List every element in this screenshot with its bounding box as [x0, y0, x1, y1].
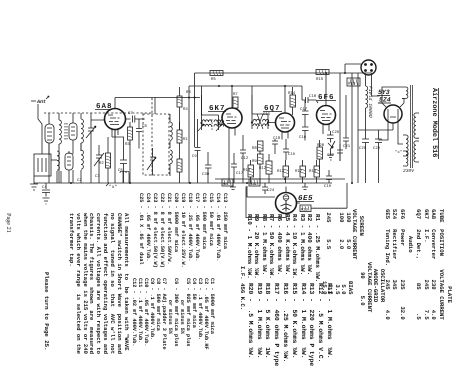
- tube voltage table plate: [383, 209, 453, 320]
- tube voltage table bias: [321, 281, 354, 294]
- trimmer capacitor C2: [77, 113, 96, 183]
- electrolytic capacitor C28: [359, 139, 369, 183]
- electrolytic capacitor C29: [373, 130, 382, 183]
- svg-text:C2: C2: [77, 178, 82, 183]
- svg-text:R8: R8: [252, 146, 257, 151]
- wire IF1 to 6K7: [202, 95, 223, 123]
- svg-text:5Y3: 5Y3: [378, 89, 390, 96]
- capacitor C24: [262, 183, 275, 194]
- svg-text:Airzone Model 516: Airzone Model 516: [430, 88, 438, 157]
- note paragraph: [67, 213, 129, 354]
- resistor R6 label top: [186, 90, 191, 95]
- svg-text:C26: C26: [332, 130, 340, 135]
- tone switch S1: [328, 141, 335, 160]
- resistor R7: [233, 92, 238, 108]
- capacitor C9: [192, 119, 201, 183]
- svg-text:R12: R12: [259, 166, 267, 171]
- oscillator coil L7: [170, 150, 172, 176]
- resistor R1: [177, 122, 188, 150]
- wire to 6E5: [247, 186, 275, 197]
- svg-text:R1: R1: [183, 137, 188, 142]
- resistor R2: [99, 137, 111, 183]
- wire 6E5 cathode: [246, 183, 347, 218]
- trimmer capacitor C3: [94, 145, 104, 183]
- svg-text:R3: R3: [125, 142, 130, 147]
- speaker: [345, 60, 376, 86]
- antenna coil L1 secondary: [59, 113, 67, 183]
- svg-text:R15: R15: [316, 77, 324, 82]
- main chassis bus: [34, 182, 332, 184]
- AVC bus line: [215, 178, 345, 180]
- svg-text:Field 1000Ω: Field 1000Ω: [367, 86, 373, 118]
- capacitor C30: [202, 152, 212, 183]
- tube voltage table screen: [325, 209, 364, 259]
- svg-text:R5: R5: [211, 77, 216, 82]
- svg-text:R13: R13: [277, 169, 285, 174]
- svg-text:R19: R19: [301, 208, 309, 213]
- svg-text:R6: R6: [223, 182, 228, 187]
- svg-text:230V: 230V: [403, 168, 415, 174]
- field label: [367, 86, 373, 118]
- svg-text:"x": "x": [395, 150, 402, 155]
- capacitor C12: [240, 135, 249, 183]
- svg-text:C7: C7: [128, 111, 133, 116]
- resistor R16: [309, 160, 320, 183]
- svg-text:C9: C9: [192, 154, 197, 159]
- svg-text:C29: C29: [373, 146, 381, 151]
- svg-text:R10: R10: [243, 168, 251, 173]
- wire IF2 to 6Q7: [252, 95, 275, 123]
- wire antenna bus: [31, 100, 36, 102]
- oscillator trimmer arrow: [147, 148, 156, 175]
- page number: [5, 213, 12, 233]
- svg-text:C10: C10: [309, 94, 317, 99]
- svg-text:C21: C21: [343, 144, 351, 149]
- node x right: [395, 150, 402, 155]
- svg-text:"x": "x": [109, 184, 117, 190]
- oscillator coil shield dashed box: [143, 114, 169, 175]
- resistor R18: [347, 78, 360, 87]
- resistor R11 box: [249, 179, 260, 187]
- svg-text:R4: R4: [183, 107, 188, 112]
- svg-text:C28: C28: [359, 146, 367, 151]
- svg-text:R20: R20: [317, 143, 325, 148]
- tube 5Z4 rectifier: [378, 103, 404, 130]
- svg-text:R2: R2: [99, 161, 104, 166]
- antenna coil L2 secondary: [81, 113, 83, 151]
- power transformer T3: [402, 85, 419, 168]
- junction dots bus: [70, 72, 353, 184]
- Airzone model label: [430, 88, 439, 159]
- capacitor C7: [126, 111, 145, 123]
- wave band coil L4: [65, 151, 73, 183]
- resistor R15: [316, 70, 329, 83]
- heater wires: [379, 116, 404, 144]
- mains label 230V: [403, 168, 415, 174]
- wire B+ vertical feed: [189, 73, 195, 183]
- resistor R5: [177, 150, 182, 183]
- wave band coil L3: [51, 151, 59, 183]
- wire 6A8 cathode to bus: [114, 130, 116, 184]
- capacitor C8: [136, 119, 147, 149]
- band switch box: [34, 154, 51, 176]
- resistor R9: [252, 151, 263, 183]
- svg-text:C18: C18: [273, 136, 281, 141]
- node junction dots IF1: [200, 122, 219, 124]
- wire rectifier plates: [382, 87, 404, 103]
- capacitor C21: [343, 130, 351, 149]
- resistor list R11-R20: [245, 283, 333, 366]
- svg-text:R16: R16: [309, 169, 317, 174]
- svg-text:C12: C12: [241, 156, 249, 161]
- tuning gang dashed line: [44, 98, 152, 176]
- svg-text:C19: C19: [288, 152, 296, 157]
- resistor R6 box: [222, 179, 233, 187]
- ground stub right: [302, 183, 308, 190]
- svg-text:R6: R6: [186, 90, 191, 95]
- tube voltage table oscillator: [359, 262, 385, 312]
- resistor R20: [317, 140, 325, 169]
- capacitor C26: [327, 130, 340, 143]
- svg-text:5Z4: 5Z4: [379, 97, 391, 104]
- capacitor C10: [302, 94, 318, 103]
- node x left: [106, 183, 117, 190]
- resistor R5 top: [210, 71, 223, 83]
- svg-text:C19: C19: [324, 184, 332, 189]
- tube 6F6: [317, 73, 337, 134]
- resistor list R1-R10: [245, 214, 321, 282]
- svg-text:C3: C3: [95, 174, 100, 179]
- resistor R19: [300, 205, 311, 213]
- tube 6A8: [91, 98, 126, 138]
- IF frequency note: [239, 266, 246, 310]
- antenna Ant: [36, 96, 49, 154]
- rectifier labels 5Y3 5Z4: [377, 89, 391, 104]
- antenna coil L2 primary: [69, 113, 77, 154]
- antenna coil L1 primary: [45, 113, 54, 183]
- svg-text:C24: C24: [267, 188, 275, 193]
- resistor R3: [125, 122, 133, 183]
- svg-text:R17: R17: [295, 169, 303, 174]
- capacitor C19b: [324, 170, 332, 189]
- ground chassis left: [30, 176, 38, 190]
- wire volume drop: [234, 182, 269, 184]
- screen bus: [189, 86, 302, 100]
- node junction dots IF2: [251, 121, 269, 123]
- capacitor C19: [283, 139, 296, 160]
- svg-text:C17: C17: [300, 107, 308, 112]
- IF transformer T1: [198, 115, 224, 131]
- svg-text:C30: C30: [202, 172, 210, 177]
- wave band coil L5: [81, 143, 83, 183]
- capacitor C17: [300, 100, 309, 127]
- wire left block verticals: [49, 143, 73, 183]
- wire rectifier output: [358, 129, 393, 131]
- capacitor C18: [272, 136, 281, 154]
- capacitor C20: [327, 144, 343, 161]
- wire bus left drop: [115, 98, 200, 115]
- capacitor C4 to ground: [42, 183, 50, 204]
- wire IF can tops: [180, 86, 253, 130]
- svg-text:R9: R9: [252, 159, 257, 164]
- ground stub mid: [230, 183, 236, 190]
- svg-text:R11: R11: [250, 182, 258, 187]
- please turn note: [43, 272, 50, 351]
- tube 6Q7: [263, 86, 295, 140]
- top B+ bus: [195, 72, 373, 74]
- resistor R13: [277, 160, 289, 183]
- resistor R10: [243, 160, 254, 183]
- resistor R8: [252, 141, 263, 151]
- resistor R17: [295, 160, 306, 183]
- capacitor C5: [112, 137, 127, 183]
- oscillator coil L6: [170, 114, 172, 148]
- resistor R12: [259, 154, 272, 183]
- resistor R14: [288, 87, 296, 115]
- svg-text:C20: C20: [327, 153, 335, 158]
- svg-text:C4: C4: [42, 185, 47, 190]
- heater winding bottom left: [120, 171, 129, 183]
- capacitor C16: [299, 127, 309, 141]
- wire right verticals: [340, 73, 358, 183]
- resistor R4: [177, 87, 188, 112]
- speaker field coil: [366, 86, 380, 139]
- svg-text:R7: R7: [233, 92, 238, 97]
- svg-text:R14: R14: [288, 91, 296, 96]
- capacitor C17a: [231, 153, 244, 183]
- svg-text:C16: C16: [299, 135, 307, 140]
- svg-text:R18: R18: [348, 82, 356, 87]
- capacitor list C13-C25: [137, 193, 228, 268]
- svg-text:Ant: Ant: [36, 99, 46, 105]
- tube 6K7: [208, 86, 242, 183]
- tube 6E5: [276, 187, 315, 214]
- capacitor list C1-C12: [131, 278, 215, 350]
- IF transformer T2: [252, 112, 271, 129]
